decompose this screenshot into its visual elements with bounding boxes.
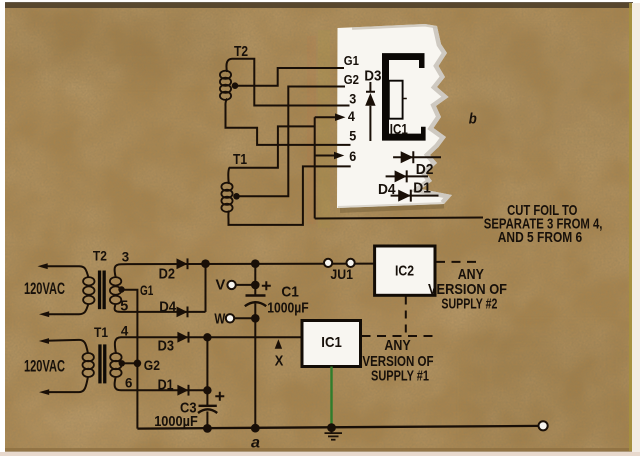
wire T1 tap to pad G2	[237, 87, 346, 197]
wire T2 tap to pad G1	[235, 68, 344, 86]
diode D3	[177, 332, 188, 343]
heatsink and IC1 outline (foil)	[382, 53, 426, 141]
svg-text:G1: G1	[344, 53, 359, 68]
svg-text:120VAC: 120VAC	[24, 279, 65, 298]
svg-text:G2: G2	[144, 357, 160, 373]
op-amp IC1 box	[302, 321, 361, 367]
wire to cut-foil note	[315, 218, 483, 219]
svg-text:D2: D2	[416, 161, 434, 178]
svg-text:T2: T2	[93, 248, 107, 264]
wire D4 up to D2 node	[205, 264, 207, 312]
svg-text:5: 5	[349, 127, 356, 143]
wire 120VAC bottom lead T1	[46, 376, 88, 392]
diode D4	[177, 307, 188, 318]
note any version of supply #1	[362, 337, 433, 385]
border frame	[5, 2, 633, 8]
wire main positive vertical	[254, 264, 256, 429]
svg-text:6: 6	[125, 375, 133, 391]
svg-text:C1: C1	[281, 284, 299, 301]
svg-text:T1: T1	[94, 324, 108, 340]
capacitor C1	[245, 296, 266, 307]
svg-text:JU1: JU1	[330, 266, 353, 282]
svg-text:SUPPLY #1: SUPPLY #1	[371, 368, 429, 385]
node T1 center tap	[233, 193, 240, 200]
svg-text:D3: D3	[364, 68, 381, 85]
transformer T2 core	[98, 271, 101, 310]
capacitor C3	[198, 406, 217, 429]
wire T1 top to pad 4	[228, 126, 314, 184]
wire T1 bottom to pad 6	[228, 166, 350, 225]
svg-text:IC1: IC1	[390, 121, 408, 138]
wire T2 bottom to pad 5	[225, 99, 350, 145]
svg-text:D3: D3	[158, 338, 174, 355]
svg-text:120VAC: 120VAC	[24, 357, 65, 376]
wire T2 secondary bottom to D4	[115, 303, 206, 312]
op-amp IC2 box	[375, 246, 435, 295]
svg-text:IC1: IC1	[321, 334, 342, 351]
dashed wire IC2 bottom	[405, 297, 407, 336]
wire T1 secondary top to D3 and IC1	[115, 337, 302, 353]
C3 polarity +	[215, 392, 224, 401]
arrow to pad 6	[315, 155, 336, 157]
note any version of supply #2	[428, 266, 507, 313]
arrow to pad 4	[315, 116, 337, 118]
svg-text:X: X	[275, 353, 284, 370]
svg-text:3: 3	[122, 249, 130, 265]
wire G1 tap to ground rail	[122, 290, 138, 429]
svg-text:G2: G2	[344, 72, 359, 87]
diode D2 (foil)	[393, 151, 441, 163]
ground symbol	[325, 428, 343, 440]
wire IC1 ground (green)	[330, 367, 332, 429]
svg-text:D1: D1	[413, 180, 431, 197]
svg-text:D1: D1	[158, 376, 174, 393]
diode D4 (foil)	[386, 170, 428, 182]
svg-text:AND 5 FROM 6: AND 5 FROM 6	[498, 229, 582, 246]
svg-text:1000µF: 1000µF	[267, 300, 309, 317]
diode D1 (foil)	[391, 190, 439, 202]
dashed wire IC1 right	[362, 335, 438, 337]
svg-text:ANY: ANY	[384, 337, 410, 354]
wire G2 tap	[122, 362, 138, 364]
dashed wire IC2 right	[436, 261, 479, 263]
wire T1 secondary bottom to D1	[115, 376, 208, 390]
svg-text:a: a	[251, 435, 260, 452]
node rail under C1	[251, 424, 260, 433]
jumper JU1	[324, 259, 332, 267]
wire D3 node down to D1/C3	[206, 337, 208, 406]
node T1 center tap G2	[119, 360, 125, 366]
svg-text:D2: D2	[159, 266, 175, 283]
wire 120VAC top lead T1	[46, 340, 88, 354]
svg-text:V: V	[216, 277, 226, 294]
PCB foil cutout white region (photo)	[337, 24, 452, 211]
svg-text:T2: T2	[234, 43, 248, 60]
svg-text:4: 4	[348, 108, 355, 124]
node D1/C3 junction	[203, 386, 211, 394]
svg-text:D4: D4	[159, 298, 176, 315]
C1 polarity +	[262, 281, 271, 290]
wire 120VAC top lead T2	[45, 266, 89, 278]
svg-text:IC2: IC2	[395, 263, 414, 280]
transformer T1 secondary coil	[110, 353, 121, 377]
diode D1	[177, 385, 188, 396]
svg-text:6: 6	[349, 148, 356, 164]
svg-text:W: W	[214, 311, 226, 328]
transformer T2 primary coil	[83, 277, 94, 304]
cut-foil annotation vertical wire	[314, 117, 316, 218]
wire T2 secondary top / rail to D2 and IC2	[115, 264, 375, 278]
ground rail	[137, 426, 538, 429]
cut-foil note text	[484, 202, 603, 246]
node T2 center tap	[232, 82, 239, 89]
diode D3 (foil)	[365, 82, 375, 141]
wire T2 top to pad 3	[226, 59, 349, 106]
node X arrow	[275, 339, 282, 349]
svg-text:T1: T1	[233, 151, 247, 168]
transformer T1 coil	[221, 183, 232, 212]
node C3 ground	[203, 424, 212, 433]
svg-text:SUPPLY #2: SUPPLY #2	[441, 296, 497, 313]
transformer T2 coil	[220, 71, 231, 100]
node T2 center tap G1	[118, 286, 124, 292]
node G2 junction on ground drop	[134, 360, 142, 368]
transformer T1 primary coil	[83, 353, 94, 377]
svg-text:G1: G1	[140, 282, 153, 298]
wire 120VAC bottom lead T2	[46, 303, 89, 314]
diode D2	[177, 258, 188, 269]
node D3 output	[203, 333, 211, 341]
terminal at rail right end	[539, 421, 548, 430]
svg-text:b: b	[469, 110, 477, 127]
node rail junction	[251, 259, 260, 268]
svg-text:4: 4	[121, 323, 129, 339]
transformer T1 core	[98, 344, 101, 383]
scan tint streaks left of foil cutout	[318, 30, 330, 228]
node D2/D4 junction	[201, 259, 210, 268]
IC1 body (foil)	[389, 81, 403, 119]
transformer T2 secondary coil	[110, 277, 121, 304]
node rail at IC1 ground	[327, 423, 336, 432]
svg-text:3: 3	[349, 90, 356, 106]
